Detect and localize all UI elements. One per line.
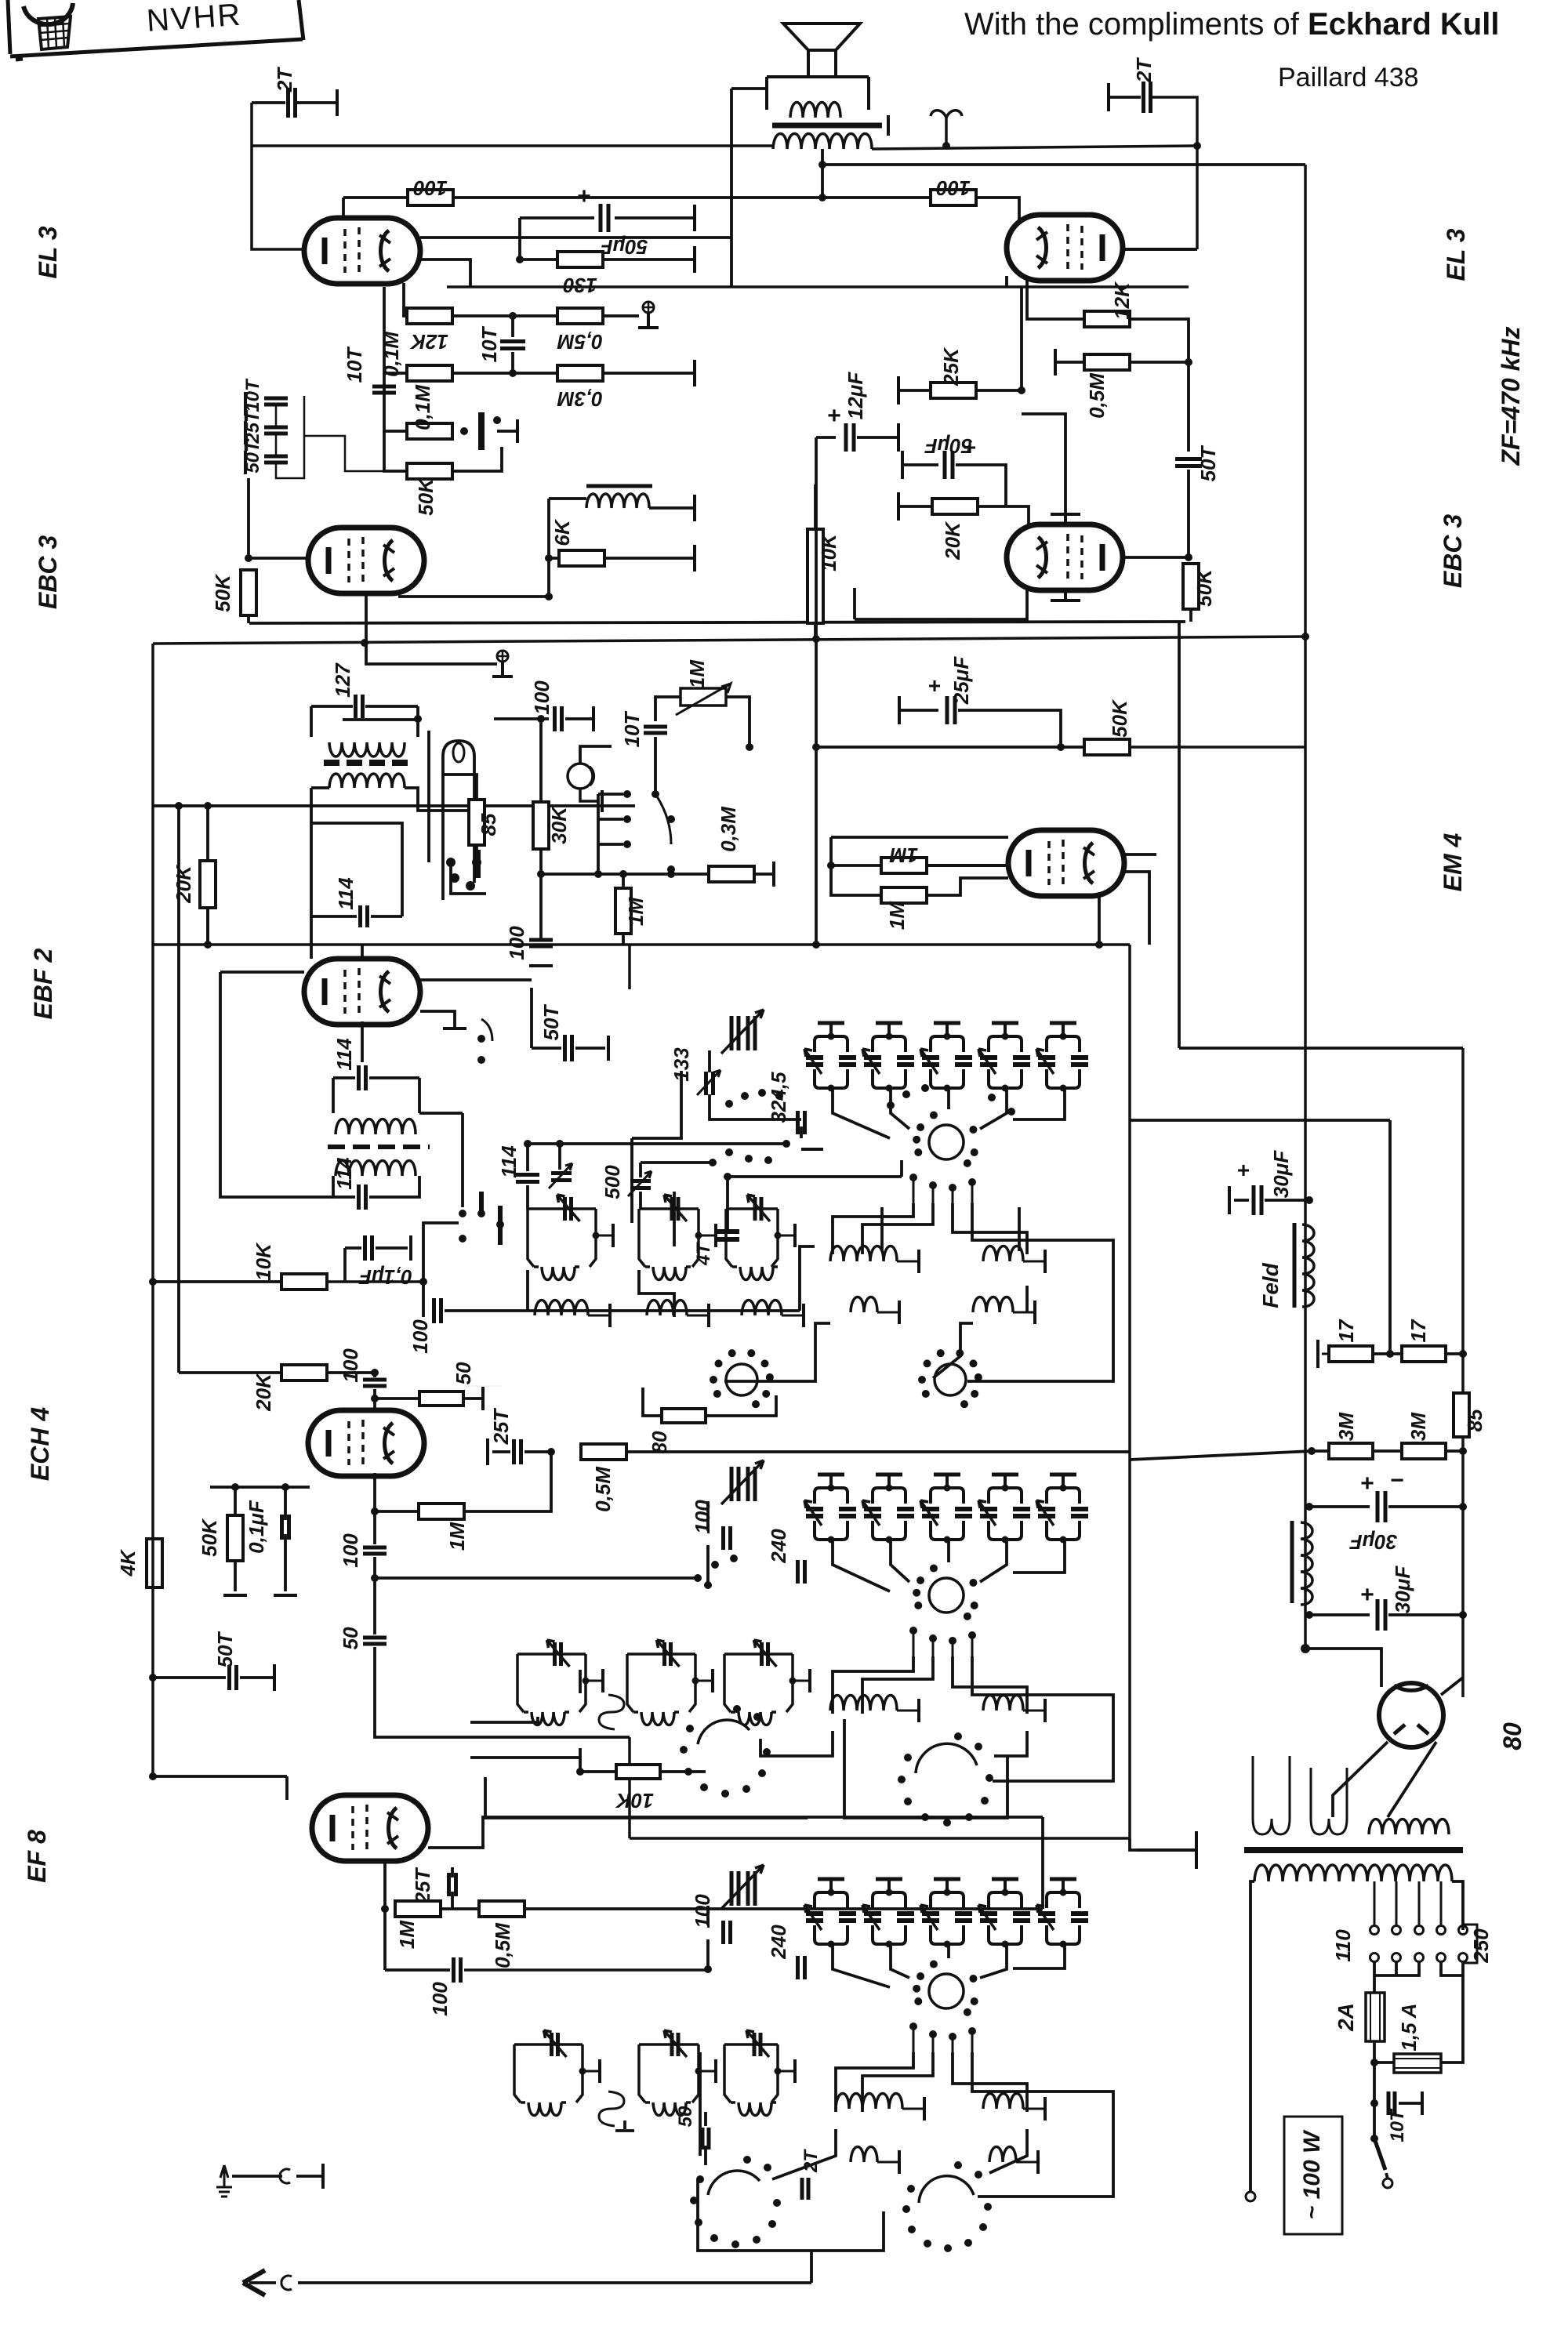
coil L18 end [686,2101,691,2104]
wire block1 int3 [1018,1207,1021,1251]
trimmer capacitor padder row2 cell 1 [806,1509,823,1516]
svg-text:25T: 25T [411,1867,434,1904]
junction padder row3 cell 5 bottom [1060,1941,1067,1948]
wire 80 to S1c [706,1395,776,1416]
coil L3 [732,1265,737,1268]
wire long rail y795 [249,622,1185,623]
wire EBF2 grid return [220,972,333,1197]
wire 50 right [463,1397,481,1400]
wire EBC3 cathode down [366,593,497,664]
tube EM4 (tuning indicator) [1008,830,1124,896]
junction padder row2 cell 4 bottom [1002,1536,1009,1544]
heater winding loop a [1253,1819,1290,1834]
wire primary right down [1452,1881,1463,1930]
coil L2 [645,1265,650,1268]
junction padder row3 cell 2 top [886,1889,893,1896]
wire r3cell1 to switch [833,1946,890,1987]
wire padder row3 cell 1 stem [829,1879,833,1892]
wire 100 left [385,1968,450,1972]
terminal L8 [1044,1250,1047,1273]
svg-text:1M: 1M [395,1920,419,1949]
wire to 50T [153,1676,226,1679]
junction rail y186 [1193,142,1201,150]
wire L13 out [793,1680,808,1682]
coil L21 [983,2094,1023,2110]
junction padder row2 cell 1 top [828,1485,835,1492]
contact dot [493,416,501,424]
wire EL3 cathode down [404,283,408,316]
tube EL3 right (V6) [1007,215,1123,281]
wire 0,1uF left [345,1246,361,1250]
junction trim stub [556,1140,564,1148]
wire to R6K [549,557,560,560]
wire B+ to R100 right [822,196,931,199]
svg-text:25μF: 25μF [949,656,973,706]
wire r2cell3 to switch [947,1541,950,1562]
transformer core bar [1244,1847,1463,1853]
svg-text:+: + [964,435,976,459]
wire tap 2 [1396,1881,1398,1925]
wire to 324,5 [735,1118,801,1121]
wire bus nest 3c [953,2052,1027,2112]
terminal padder row2 cell 2 top [876,1473,902,1477]
svg-text:127: 127 [331,662,354,698]
terminal 10T stack [244,392,247,415]
terminal padder row1 cell 4 top [992,1021,1018,1025]
wire to terminal [296,2175,321,2178]
wire 0,1M to 0,3M [452,372,558,375]
wire padder row1 cell 2 stem [887,1023,891,1036]
terminal L2 [714,1224,717,1247]
svg-text:50: 50 [675,2106,696,2127]
coil L13 end [771,1711,776,1714]
resistor 0,1M (lower) [407,423,452,439]
terminal L19b [793,2059,797,2083]
coil L18 loops [653,2102,686,2116]
padder cell padder row2 cell 1 frame [815,1488,848,1540]
wire from 2T down to EL3 left grid [252,103,304,249]
resistor 12K (right) [1084,311,1130,327]
terminal 6K right [693,545,696,571]
wire T2 left [332,1078,335,1113]
wire grid to R100 [343,196,406,199]
coil L12 loops [641,1712,674,1725]
capacitor fixed padder row3 cell 1 [839,1914,856,1921]
wire 50K to rail [247,615,250,623]
wire EM4 top [831,836,1008,839]
junction padder row3 cell 1 top [828,1889,835,1896]
terminal 100 det [529,964,553,967]
wire 30uF1 left [1234,1199,1249,1202]
wire padder row1 cell 4 stem [1004,1023,1007,1036]
terminal L4 [608,1304,612,1327]
wire 114 right [369,1076,419,1079]
junction 100/30K [537,715,545,723]
wire 500 to box [639,1192,642,1209]
junction 0,3M [667,870,675,878]
capacitor fixed padder row2 cell 4 [1013,1509,1030,1516]
coil L17 [521,2101,525,2104]
wire grid into tube [373,1389,376,1410]
capacitor 10T (x490) [372,386,396,393]
switch S2a feed contacts [694,1555,738,1582]
coil L11 end [564,1711,569,1714]
wire 2T right lead [297,101,336,104]
junction padder row1 cell 5 top [1060,1033,1067,1040]
junction EF8 [149,1772,157,1780]
resistor 0,5M (right) [1084,354,1130,370]
padder cell padder row2 cell 2 frame [873,1488,906,1540]
wire T1 tank left [310,706,313,737]
wire 20K up [206,806,209,861]
wire L22 lead [877,2161,898,2164]
wire 0,1uF down [284,1534,287,1591]
rotary switch S1c [710,1349,774,1408]
coil L17 loops [528,2102,561,2116]
wire 0,5M down to 1M [463,1452,551,1511]
terminal 25uF left [898,696,901,724]
wire L21 to S3c [989,2129,1027,2173]
wire rail y953 left [816,746,1084,749]
terminal 20K left [897,492,900,521]
antenna arrow [243,2270,265,2295]
wire rail y2013 [375,1576,698,1580]
wire R100 to EL3 right grid [976,198,1019,222]
wire cell1 to switch [833,1090,890,1138]
padder cell padder row3 cell 1 frame [815,1892,848,1944]
wire L17 out [583,2070,598,2073]
wire L10 top [1025,1286,1029,1312]
svg-text:10K: 10K [252,1242,275,1281]
wire cell3 to switch [947,1090,950,1109]
junction tap [818,161,826,169]
tuned circuit box L17 frame [514,2044,583,2102]
junction 25K [1018,386,1025,394]
wire 133 left [632,1071,681,1138]
resistor 20K (left) [200,861,216,908]
capacitor 100 (row3) [724,1921,731,1944]
junction 10K rail [149,1278,157,1286]
wire L1 down [526,1270,529,1311]
wire EBC3R cathode [855,589,1027,619]
resistor 0,5M (ECH4) [581,1444,626,1460]
wire bus nest 1a [833,1203,913,1254]
resistor 0,5M (EF8) [479,1901,524,1917]
wire 17 right [1446,1352,1463,1355]
terminal 0,1uF [409,1235,412,1261]
capacitor 100 (osc grid) [363,1547,387,1554]
mains primary winding [1254,1865,1452,1881]
junction padder row3 cell 3 bottom [944,1941,951,1948]
capacitor 10T (mains) [1388,2091,1395,2115]
fuse 2A [1366,1993,1385,2041]
wire to 30uF3 [1309,1613,1370,1616]
padder cell padder row2 cell 3 frame [931,1488,964,1540]
wire L9 to S1c [724,1323,830,1381]
tap contact 4 lower [1437,1954,1446,1962]
tap contact 3 upper [1415,1926,1424,1935]
wire r2cell1 to switch [833,1541,890,1591]
svg-text:110: 110 [1331,1929,1355,1962]
wire EBF2 left lead [220,970,304,974]
resistor 0,5M (left) [557,308,603,324]
wire between 17s [1373,1352,1402,1355]
svg-text:12K: 12K [409,330,448,354]
resistor 80 (padding) [662,1409,706,1423]
svg-text:12μF: 12μF [844,372,867,420]
terminal L9 [898,1301,901,1324]
wire r3cell5 to switch [1013,1946,1065,1968]
wire L15 to S2b [760,1731,833,1756]
node [464,1385,502,1387]
junction 1M [619,870,627,878]
trimmer 114 [549,1163,572,1188]
wire trunk to 80 plate [1305,1649,1381,1687]
wire L5 lead [687,1315,707,1317]
svg-text:100: 100 [339,1533,362,1568]
wire rail y1337 [1179,1047,1463,1050]
junction 30uF3 [1459,1611,1467,1619]
trimmer L1 [565,1197,572,1221]
terminal EBF2 cathode [443,1027,466,1030]
terminal L17 [598,2059,601,2083]
svg-text:1M: 1M [889,843,918,867]
junction 0,1uF top [281,1483,289,1491]
wire EBC3R plate [1121,556,1189,559]
svg-text:30K: 30K [547,805,571,844]
svg-text:10T: 10T [620,710,644,747]
terminal 0,3M [772,862,775,887]
wire 25T right [524,1450,551,1453]
wire vert from rail y366 [1020,287,1023,390]
junction trunk 80 [1301,1644,1310,1653]
junction padder row1 cell 1 top [828,1033,835,1040]
terminal L12 [711,1669,714,1692]
tap contact 2 upper [1392,1926,1401,1935]
trimmer L13 [762,1642,768,1666]
svg-text:100: 100 [691,1894,714,1928]
resistor 10K (osc tracking) [616,1765,660,1779]
wire EF8 grid down [383,1909,387,1970]
wire 50T left [532,1047,561,1050]
svg-text:130: 130 [563,274,597,297]
terminal coil right [693,495,696,521]
junction 30uF2 right [1459,1503,1467,1511]
rotary switch S2c [898,1732,993,1827]
capacitor 100 (row2) [724,1526,731,1550]
wire 25uF right [958,710,1061,747]
wire padder row2 cell 5 stem [1062,1475,1065,1488]
wire to 30uF2 [1309,1505,1370,1508]
capacitor 50T (ECH4 ag) [230,1665,237,1690]
resistor 4K [147,1539,162,1587]
wire vert x1041 [815,639,818,945]
tuning gang capacitor C-gang3 [721,1865,764,1909]
capacitor 10T (stack top) [264,398,288,405]
wire into EF8 [285,1776,289,1800]
wire box to core [1130,1838,1137,1850]
wire padder row2 cell 1 stem [829,1475,833,1488]
terminal L16 [1044,1699,1047,1722]
wire EBF2 to T2 [361,1021,364,1062]
junction EBC3 grid [245,554,252,562]
svg-text:10T: 10T [343,346,366,383]
wire EM4 right lead1 [1123,853,1156,856]
wire 0,1uF up [284,1487,287,1520]
wire ECH4 cath rail [210,1486,310,1489]
coil L3 end [773,1265,778,1268]
switch S3a lower contacts [909,2023,976,2052]
IF T2 secondary coil [336,1161,416,1177]
coil L10 [973,1297,1013,1313]
wire 25T left [492,1450,510,1453]
terminal L20 [923,2097,926,2121]
svg-text:+: + [928,673,941,698]
output transformer secondary coil [773,134,872,150]
tube EBC3 left (V2) [308,528,424,593]
svg-text:2T: 2T [273,67,296,93]
junction padder row3 cell 3 top [944,1889,951,1896]
wire osc return [375,1647,630,1737]
coil L17 end [561,2101,566,2104]
wire EL3 left screen lead [420,236,731,239]
wire 127 right [365,705,418,708]
wire contact rail [597,794,600,874]
svg-text:EBC 3: EBC 3 [1439,514,1467,588]
junction L3 out [775,1232,782,1239]
wire 10T down [654,737,657,792]
svg-text:0,3M: 0,3M [557,387,603,411]
wire 0,5M right [524,1907,1043,1910]
terminal padder row1 cell 2 top [876,1021,902,1025]
NVHR logo light bulb [24,3,73,49]
wire EM4 bottom down [1098,896,1101,945]
svg-text:~ 100 W: ~ 100 W [1299,2129,1325,2219]
wire 50uF2 to 20K [956,465,1006,506]
capacitor 10T (mid-left) [500,342,525,349]
wire EM4 left rail [831,837,881,895]
capacitor 30uF (filter b) [1377,1599,1385,1631]
capacitor fixed padder row3 cell 5 [1071,1914,1088,1921]
wire bus nest 3b [862,2052,933,2112]
svg-text:25T: 25T [242,409,263,444]
resistor 50K (EBC3 right) [1183,564,1199,609]
wire tap down [1373,1962,1376,1975]
junction osc grid [371,1507,379,1515]
wire 12K to node [1130,319,1189,452]
wire 100 row3 down [706,1939,710,1969]
wire 80 filament right [1388,1742,1436,1817]
capacitor 12uF electrolytic [846,423,854,452]
coil L5 [647,1301,687,1316]
IF coil with core (6K primary) [586,484,652,488]
junction 30uF3 left [1305,1611,1313,1619]
terminal L3 [793,1224,797,1247]
junction padder row1 cell 2 top [886,1033,893,1040]
svg-text:0,5M: 0,5M [1085,372,1109,419]
junction plate node [1185,553,1192,561]
wire 20K right [327,1371,375,1374]
switch S1a contact field [887,1084,1015,1116]
terminal 50 [481,1387,485,1410]
wire 80 left [643,1388,662,1416]
junction EBC3 cathode rail [361,639,368,647]
resistor 20K (ECH4 grid) [281,1365,327,1380]
trimmer capacitor padder row3 cell 2 [864,1914,881,1921]
resistor 10K (right) [808,529,823,623]
wire tap 3 [1418,1881,1421,1925]
svg-text:100: 100 [408,1319,432,1354]
junction L1 out [593,1232,600,1239]
junction padder row3 cell 2 bottom [886,1941,893,1948]
resistor 20K (right) [932,499,978,514]
resistor 1M (det) [615,888,631,934]
wire cathode vert [853,588,856,619]
switch S1c contacts [623,790,675,873]
wire secondary tap down [821,149,824,198]
svg-text:10K: 10K [817,532,840,571]
coil L1 end [575,1265,579,1268]
heater winding legs a [1253,1756,1290,1819]
junction 1M left [381,1905,389,1913]
svg-text:114: 114 [334,877,358,910]
junction bus 500 [709,1159,717,1166]
junction L19b out [775,2068,782,2075]
wire 85 down [475,845,478,862]
coil L19b end [771,2101,776,2104]
svg-text:NVHR: NVHR [146,0,243,38]
junction padder row2 cell 2 top [886,1485,893,1492]
resistor 100 (top-right) [931,190,976,205]
wire padder row3 cell 2 stem [887,1879,891,1892]
resistor 0,3M (right) [709,866,754,882]
tap contact right upper [1459,1926,1468,1935]
junction 50T trunk [149,1674,157,1682]
wire 20K left [179,1371,281,1374]
capacitor 0,1uF (EBF2) [365,1235,372,1261]
svg-text:80: 80 [1498,1722,1526,1750]
junction antenna [942,142,950,150]
wire padder row3 cell 5 stem [1062,1879,1065,1892]
terminal L15 [917,1699,920,1722]
wire stack right rail [276,396,304,478]
resistor 1M (EF8) [395,1901,441,1917]
wire EM4 right lead2 [1123,872,1149,945]
wire 114 left down [526,1144,529,1171]
speaker neck [808,50,836,77]
svg-text:50: 50 [452,1362,475,1384]
terminal 30uF1 [1228,1186,1231,1214]
capacitor 30uF (field) [1254,1185,1261,1215]
coil L1 [534,1265,539,1268]
terminal 25K left [897,376,900,405]
w [1386,2173,1388,2179]
wire EBF2 top [361,945,364,959]
junction contact rail [594,870,602,878]
resistor 0,3M [557,365,603,381]
tap contact 4 upper [1437,1926,1446,1935]
capacitor 25T (ECH4) [514,1439,521,1464]
fuse 1,5A [1394,2054,1441,2073]
terminal padder row2 cell 3 top [934,1473,960,1477]
capacitor stack group [0,0,1,1]
coil small L14 [599,1695,624,1729]
junction 3M trunk [1308,1447,1316,1455]
junction 3M right [1459,1447,1467,1455]
resistor 50K (phase inverter) [407,463,452,479]
wire L4 lead [588,1315,608,1317]
svg-text:50T: 50T [539,1003,563,1040]
